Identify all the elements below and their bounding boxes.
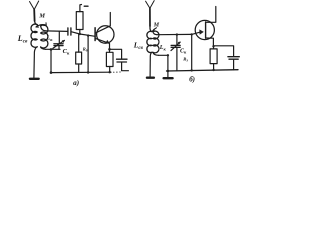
- svg-text:Lсв: Lсв: [133, 40, 144, 51]
- svg-text:б): б): [189, 76, 195, 84]
- svg-text:Lк: Lк: [46, 36, 54, 42]
- svg-text:М: М: [153, 22, 160, 28]
- svg-text:Rз: Rз: [183, 57, 188, 63]
- svg-text:Rб: Rб: [83, 47, 88, 53]
- svg-text:Ск: Ск: [63, 48, 70, 55]
- svg-text:Ск: Ск: [180, 48, 187, 54]
- svg-text:Lк: Lк: [159, 45, 167, 51]
- svg-text:М: М: [38, 13, 45, 20]
- svg-text:а): а): [73, 79, 79, 87]
- svg-text:Lсв: Lсв: [17, 34, 28, 45]
